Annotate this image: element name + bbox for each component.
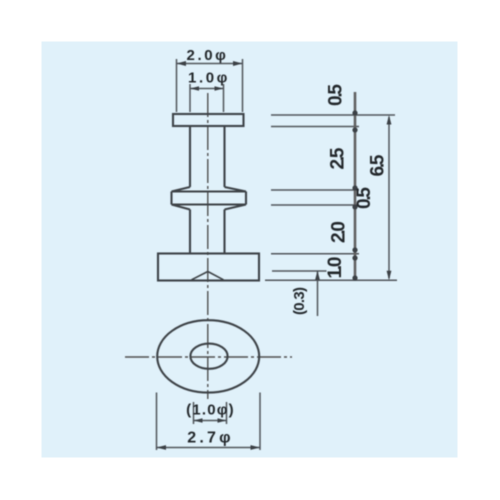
svg-text:2.0φ: 2.0φ [187,47,229,64]
svg-text:1.0φ: 1.0φ [188,70,230,87]
svg-text:2.5: 2.5 [328,147,349,169]
svg-text:2.7φ: 2.7φ [187,430,234,447]
svg-text:2.0: 2.0 [329,221,350,243]
svg-text:0.5: 0.5 [326,84,347,106]
svg-text:(1.0φ): (1.0φ) [186,402,235,419]
svg-text:1.0: 1.0 [325,257,346,279]
svg-text:(0.3): (0.3) [291,287,308,315]
svg-text:0.5: 0.5 [354,187,375,209]
svg-text:6.5: 6.5 [368,154,389,176]
